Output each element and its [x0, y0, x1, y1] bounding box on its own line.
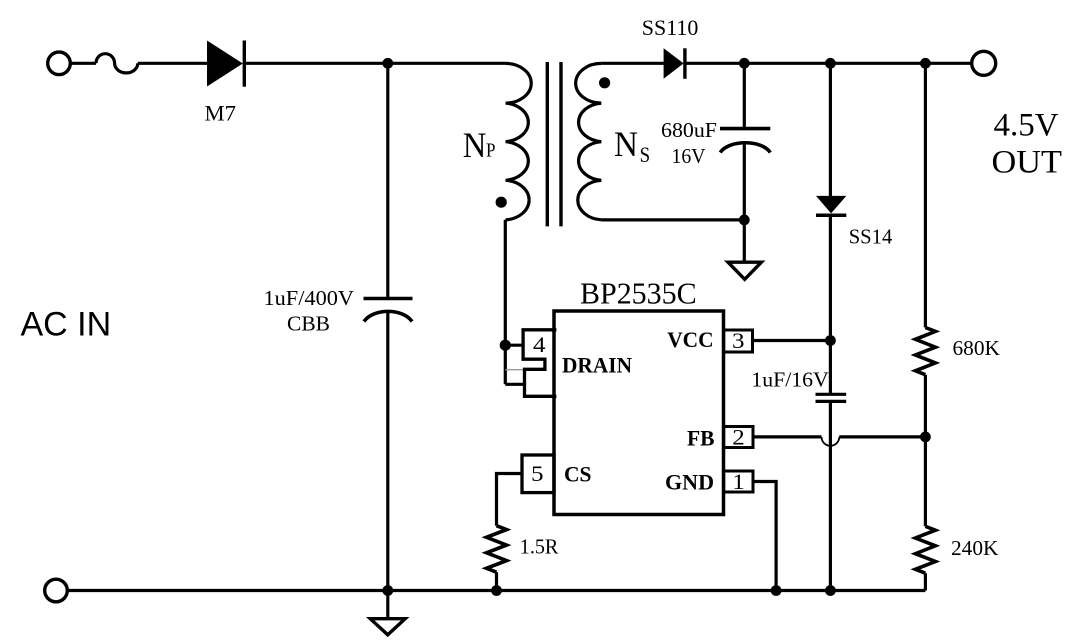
svg-text:OUT: OUT — [992, 144, 1063, 180]
secondary phase dot — [599, 77, 610, 88]
terminal output — [972, 51, 996, 75]
svg-text:1: 1 — [732, 469, 745, 494]
resistor 1.5R — [487, 526, 507, 573]
node ground junction — [382, 585, 393, 596]
node GND pin junction — [771, 585, 782, 596]
wire drain node to pin 4 — [505, 344, 523, 347]
svg-text:N: N — [463, 125, 487, 165]
svg-text:VCC: VCC — [667, 327, 713, 352]
wire 1uF/16V cap to bottom rail — [829, 401, 832, 590]
wire rail to ground symbol — [386, 591, 389, 619]
svg-text:240K: 240K — [951, 536, 999, 560]
diode SS110 — [664, 48, 685, 79]
transformer T1 primary winding Np — [506, 63, 532, 219]
wire 1.5R to bottom rail — [495, 572, 498, 590]
wire secondary top to diode SS110 — [601, 62, 664, 65]
wire FB pin 2 to hop — [753, 435, 822, 438]
svg-text:S: S — [640, 142, 651, 167]
wire secondary bottom to junction — [601, 218, 744, 221]
wire SS110 to output terminal — [685, 62, 972, 65]
wire terminal to fuse — [70, 62, 96, 65]
ground secondary — [728, 262, 761, 279]
wire junction down to capacitor CBB — [386, 63, 389, 297]
svg-text:CBB: CBB — [287, 312, 330, 336]
svg-text:1uF/16V: 1uF/16V — [751, 367, 829, 391]
node secondary return — [739, 215, 750, 226]
terminal AC input top — [48, 52, 71, 75]
wire 240K to bottom rail — [924, 573, 927, 590]
wire primary bottom down to drain — [504, 220, 507, 384]
svg-text:4: 4 — [533, 332, 546, 357]
svg-text:16V: 16V — [672, 144, 706, 168]
wire fuse to diode M7 — [138, 62, 208, 65]
label Ns — [614, 124, 650, 167]
pin 2 box — [724, 427, 753, 448]
svg-text:M7: M7 — [205, 100, 237, 125]
wire top rail down to SS14 — [829, 63, 832, 197]
svg-text:P: P — [486, 140, 496, 162]
svg-text:1.5R: 1.5R — [520, 535, 559, 559]
wire SS14 to VCC node — [829, 215, 832, 340]
node VCC cap return junction — [825, 585, 836, 596]
svg-text:5: 5 — [531, 461, 544, 486]
label Np — [463, 125, 496, 165]
pin 4 drain tab — [523, 330, 556, 397]
terminal AC input bottom — [45, 579, 68, 602]
wire junction to ground — [743, 220, 746, 262]
wire hop to FB node — [839, 435, 925, 438]
svg-text:CS: CS — [564, 461, 592, 486]
node drain junction — [500, 340, 511, 351]
wire top rail down to 680K — [924, 63, 927, 327]
transformer T1 secondary winding Ns — [576, 63, 602, 219]
wire 680uF cap to secondary return — [743, 143, 746, 220]
diode M7 — [207, 41, 244, 87]
node 1.5R junction — [491, 585, 502, 596]
primary phase dot — [496, 197, 507, 208]
fuse F1 — [96, 54, 138, 73]
svg-text:DRAIN: DRAIN — [562, 353, 632, 378]
svg-text:GND: GND — [665, 470, 714, 495]
wire capacitor to bottom rail — [386, 312, 389, 591]
node VCC junction — [825, 335, 836, 346]
svg-text:3: 3 — [732, 328, 745, 353]
node bulk cap junction — [382, 58, 393, 69]
svg-text:AC IN: AC IN — [21, 306, 112, 344]
wire hop under VCC line — [822, 437, 840, 446]
wire VCC pin 3 to node — [753, 339, 831, 342]
node FB junction — [920, 432, 931, 443]
ground primary — [370, 619, 405, 635]
svg-text:680K: 680K — [953, 336, 1001, 360]
node output cap junction — [739, 58, 750, 69]
gate stub thin line — [505, 369, 523, 371]
capacitor 680uF 16V — [720, 129, 770, 153]
wire 680K to FB node — [924, 375, 927, 437]
wire GND pin 1 to bottom rail — [753, 482, 776, 591]
svg-text:2: 2 — [732, 425, 745, 450]
wire FB node down to 240K — [924, 437, 927, 526]
wire M7 to primary — [244, 62, 506, 65]
wire VCC node down to 1uF/16V cap — [829, 341, 832, 395]
wire CS pin 5 to 1.5R — [497, 474, 523, 526]
svg-text:4.5V: 4.5V — [994, 107, 1059, 143]
svg-text:N: N — [614, 124, 638, 164]
pin 3 box — [724, 330, 753, 352]
svg-text:SS14: SS14 — [849, 225, 893, 249]
pin 5 box — [522, 455, 554, 493]
wire top rail down to 680uF cap — [743, 63, 746, 128]
pin 1 box — [724, 471, 753, 492]
bottom rail wire — [67, 589, 926, 592]
resistor 680K — [915, 328, 935, 375]
wire lower drain to pin 4 — [505, 383, 524, 386]
svg-text:1uF/400V: 1uF/400V — [264, 286, 355, 310]
resistor 240K — [915, 526, 935, 573]
node 680K junction — [920, 58, 931, 69]
capacitor 1uF/400V CBB — [364, 299, 413, 322]
svg-text:SS110: SS110 — [642, 15, 699, 40]
node SS14 junction — [825, 58, 836, 69]
capacitor 1uF/16V — [816, 394, 847, 401]
svg-text:BP2535C: BP2535C — [580, 276, 697, 311]
IC U1 BP2535C body — [554, 311, 724, 515]
diode SS14 — [816, 196, 846, 215]
svg-text:680uF: 680uF — [661, 118, 717, 142]
svg-text:FB: FB — [687, 426, 715, 451]
transformer core — [547, 62, 561, 226]
